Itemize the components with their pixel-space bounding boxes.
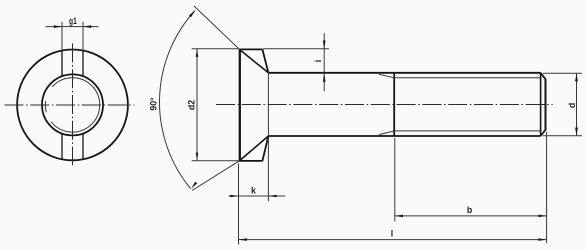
svg-text:d: d — [567, 103, 577, 108]
svg-text:g1: g1 — [69, 16, 77, 26]
svg-text:90°: 90° — [149, 97, 159, 111]
svg-text:k: k — [251, 186, 256, 196]
svg-text:d2: d2 — [186, 100, 196, 110]
svg-text:b: b — [467, 205, 473, 215]
svg-text:i: i — [313, 60, 323, 62]
svg-text:l: l — [391, 228, 393, 238]
